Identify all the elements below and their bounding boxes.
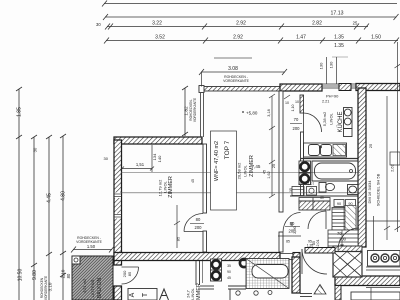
svg-text:10: 10	[285, 101, 289, 105]
svg-text:2.92: 2.92	[233, 35, 243, 41]
svg-text:24,7: 24,7	[186, 289, 191, 298]
balcony door arc D1	[122, 267, 139, 284]
wall left vertical lower stub	[114, 286, 122, 300]
svg-text:3.22: 3.22	[152, 21, 162, 27]
svg-text:30: 30	[104, 156, 109, 161]
wall top-left horizontal	[114, 137, 202, 144]
bottom right room box	[300, 288, 400, 300]
svg-text:85: 85	[176, 236, 181, 241]
chimney x block	[333, 246, 362, 277]
svg-text:45: 45	[263, 170, 267, 174]
svg-text:LINOL: LINOL	[329, 112, 334, 124]
dimension line vertical 1.82	[182, 86, 188, 136]
svg-text:130: 130	[329, 61, 334, 68]
dimension line top 3	[105, 24, 369, 30]
dim sep door2	[190, 223, 204, 225]
svg-text:80: 80	[66, 273, 71, 278]
wall stub corridor-stairs	[305, 248, 335, 254]
wall bottom far right	[335, 276, 400, 286]
svg-text:80: 80	[196, 217, 201, 222]
svg-text:5,28 m2: 5,28 m2	[322, 111, 327, 126]
dimension line left v4	[60, 134, 66, 300]
stair door arc D6	[338, 228, 359, 250]
stairs upper	[332, 206, 356, 231]
dimension line 3.08 terrace	[199, 69, 287, 75]
svg-text:2,00: 2,00	[293, 226, 297, 233]
bidet and small fixtures row	[292, 187, 317, 196]
bottom door arc D7	[302, 249, 327, 274]
washer rings	[299, 161, 311, 185]
stairs lower	[328, 230, 358, 249]
svg-text:TOP 7: TOP 7	[224, 140, 231, 159]
glyph A standalone	[160, 289, 169, 300]
svg-text:200: 200	[293, 126, 301, 131]
svg-text:70: 70	[294, 117, 299, 122]
dim sep kitchen door	[290, 123, 302, 125]
labels top 4: 3.52 2.92 1.47 1.35 1.50	[155, 35, 381, 50]
balcony edge band top	[199, 86, 281, 93]
svg-text:1.35: 1.35	[334, 43, 344, 49]
svg-text:30: 30	[33, 147, 38, 152]
svg-text:LINOL: LINOL	[190, 287, 195, 299]
svg-text:12,79 m2: 12,79 m2	[158, 179, 163, 196]
svg-text:T: T	[142, 292, 149, 297]
dim line right v1	[384, 96, 390, 240]
wall TOP7 left (lower)	[203, 231, 207, 252]
svg-text:3.52: 3.52	[155, 35, 165, 41]
svg-text:35: 35	[289, 188, 293, 192]
wall WC hatched band	[299, 201, 330, 210]
svg-text:10.50: 10.50	[18, 269, 24, 282]
bottom tiled bath	[246, 259, 289, 289]
svg-text:PH=90: PH=90	[326, 94, 339, 99]
dim ticks 130 130	[327, 57, 337, 84]
svg-text:SCHIEDEL SH 5B: SCHIEDEL SH 5B	[376, 173, 381, 206]
faint mark	[332, 56, 348, 58]
door arc D3 center	[278, 213, 301, 237]
triangle shower	[314, 285, 326, 295]
svg-text:20,58 m2: 20,58 m2	[237, 162, 242, 179]
dim line 1.50 balcony	[71, 247, 114, 253]
svg-text:70: 70	[337, 231, 342, 236]
svg-text:30: 30	[96, 22, 101, 27]
svg-text:45: 45	[227, 276, 231, 280]
svg-text:2,62: 2,62	[390, 163, 395, 172]
long thin line A	[121, 172, 360, 174]
dimension line left v1	[16, 87, 22, 300]
dimension line top 1	[102, 1, 397, 7]
wall kitchen left	[300, 95, 304, 113]
svg-text:35: 35	[227, 264, 231, 268]
wall center-right (upper)	[279, 91, 283, 212]
dim line door2 left	[174, 205, 180, 248]
svg-text:1.07: 1.07	[308, 182, 314, 186]
svg-text:90: 90	[227, 270, 231, 274]
svg-text:45: 45	[191, 179, 195, 183]
svg-text:WNF= 47,40 m2: WNF= 47,40 m2	[214, 141, 220, 181]
window top	[322, 84, 356, 88]
svg-text:25: 25	[272, 164, 276, 168]
wall top A	[280, 84, 322, 91]
svg-text:BALKON: BALKON	[97, 277, 103, 298]
svg-text:10: 10	[295, 100, 299, 104]
svg-text:130: 130	[319, 62, 324, 69]
svg-text:85: 85	[127, 271, 132, 276]
bathtub	[312, 161, 358, 181]
wall bottom main	[114, 253, 280, 261]
dimension line top 4	[104, 38, 399, 44]
svg-text:A: A	[129, 292, 136, 297]
svg-text:1.50: 1.50	[371, 35, 381, 41]
svg-text:1,51: 1,51	[136, 162, 145, 167]
wall kitchen left lower stub	[301, 132, 304, 196]
wc toilet	[319, 183, 335, 193]
svg-text:80: 80	[290, 222, 294, 226]
sink small right	[348, 185, 359, 195]
svg-text:4.45: 4.45	[47, 193, 53, 203]
balcony hatched	[72, 256, 113, 300]
svg-text:4,21 m2: 4,21 m2	[82, 278, 87, 293]
svg-text:9.80: 9.80	[32, 270, 38, 280]
svg-text:200: 200	[195, 225, 203, 230]
svg-text:3.08: 3.08	[228, 66, 238, 72]
wall center-right (lower)	[279, 232, 283, 252]
svg-text:LINOL: LINOL	[243, 164, 248, 176]
svg-text:45: 45	[298, 182, 302, 186]
wardrobe box bottom left	[128, 289, 157, 300]
wall top B	[356, 84, 400, 91]
wall bottom corner piece	[293, 253, 300, 261]
right neighbor lines	[366, 152, 400, 270]
svg-text:2,01: 2,01	[316, 240, 320, 247]
short leader line top	[214, 57, 252, 59]
svg-text:60: 60	[320, 196, 324, 200]
bottom small circles	[236, 291, 272, 296]
svg-text:90: 90	[337, 202, 341, 206]
door arc D2 TOP7	[184, 214, 203, 232]
svg-text:25: 25	[368, 143, 373, 148]
svg-text:2.21: 2.21	[322, 100, 329, 104]
window pier hatched	[339, 84, 351, 91]
wall right vertical	[358, 88, 366, 247]
svg-text:7,45: 7,45	[252, 164, 261, 169]
right stove 3 circles	[368, 251, 400, 267]
wall left vertical	[114, 140, 122, 265]
TOP7 label box	[211, 131, 237, 210]
svg-text:DM 16 34/34: DM 16 34/34	[367, 180, 372, 204]
dimension line top 2 (17.13)	[103, 14, 399, 20]
svg-text:4.80: 4.80	[61, 191, 67, 201]
labels top 3: 30 3.22 2.92 2.82 25	[96, 21, 358, 28]
boxes 90 90 above stairs	[334, 200, 356, 207]
dim line right v2	[395, 42, 400, 232]
terrace edge upper link	[201, 72, 203, 87]
wall TOP7 left (upper)	[203, 144, 207, 213]
dimension line left v3	[46, 135, 52, 300]
svg-text:2.82: 2.82	[312, 21, 322, 27]
label +5.80	[242, 111, 258, 116]
svg-text:KÜCHE: KÜCHE	[337, 111, 344, 132]
wall bottom right vertical	[292, 257, 300, 293]
small walls above WC band	[299, 198, 330, 211]
svg-text:140: 140	[157, 155, 162, 162]
wall stub below chimney	[335, 286, 341, 300]
svg-text:1.47: 1.47	[296, 35, 306, 41]
dimension line left v2	[31, 135, 37, 300]
kitchen stove 2 circles	[344, 108, 353, 137]
kitchen door arc D4	[304, 113, 322, 132]
svg-text:LINOL: LINOL	[163, 180, 168, 192]
svg-text:25: 25	[353, 21, 358, 26]
bottom wall stubs center	[196, 261, 246, 300]
svg-text:3,18: 3,18	[267, 109, 271, 116]
svg-text:85: 85	[286, 240, 290, 244]
door gap lines in bottom wall	[280, 254, 293, 260]
dim line 1.51	[120, 145, 154, 172]
bottom ring fixtures	[211, 259, 249, 281]
svg-text:1.50: 1.50	[87, 244, 96, 249]
svg-text:LATTENR.: LATTENR.	[90, 278, 95, 297]
wall below tub divider	[290, 195, 358, 197]
svg-text:ZIMMER: ZIMMER	[168, 176, 174, 198]
wall kitchen/bath divider	[301, 158, 358, 160]
terrace left edge line	[200, 93, 202, 137]
svg-text:2,10: 2,10	[61, 269, 66, 278]
labels between rings	[227, 264, 231, 280]
kitchen counter with sinks	[304, 143, 347, 157]
svg-text:+5,80: +5,80	[246, 111, 258, 116]
svg-text:1,62: 1,62	[267, 171, 271, 178]
svg-text:2.92: 2.92	[236, 21, 246, 27]
tiny labels fixtures row	[298, 182, 324, 200]
svg-text:VORDERKANTE: VORDERKANTE	[193, 98, 197, 122]
svg-text:1.85: 1.85	[17, 107, 23, 117]
dim line center vertical x278	[269, 94, 275, 198]
corridor door arc D5	[308, 211, 326, 229]
long thin line B	[121, 192, 360, 194]
svg-text:VORDERKANTE: VORDERKANTE	[223, 79, 250, 83]
left room window marks on left wall	[114, 193, 122, 219]
svg-text:17.13: 17.13	[331, 11, 344, 17]
svg-text:3.10: 3.10	[48, 282, 53, 291]
svg-text:1,10: 1,10	[291, 105, 295, 112]
svg-text:1.35: 1.35	[334, 35, 344, 41]
